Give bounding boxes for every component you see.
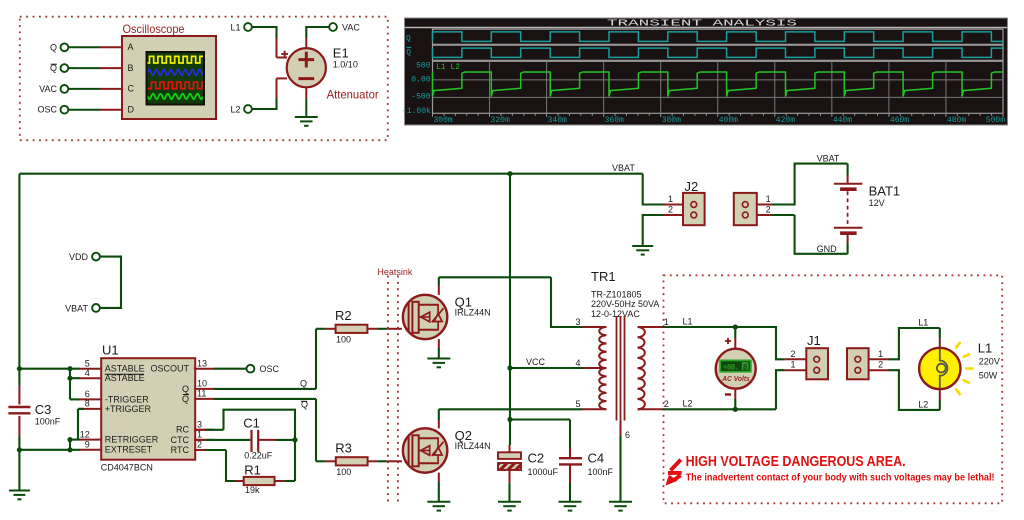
svg-text:RC: RC (176, 425, 189, 435)
svg-text:GND: GND (817, 244, 838, 254)
svg-text:500m: 500m (986, 116, 1005, 125)
svg-text:IRLZ44N: IRLZ44N (455, 307, 491, 317)
svg-text:1: 1 (766, 194, 771, 204)
svg-text:ASTABLE: ASTABLE (105, 364, 145, 374)
svg-text:CD4047BCN: CD4047BCN (101, 463, 153, 473)
svg-text:C1: C1 (243, 416, 260, 431)
svg-text:12: 12 (80, 429, 90, 439)
svg-text:U1: U1 (102, 343, 119, 358)
svg-text:2: 2 (197, 440, 202, 450)
svg-text:R1: R1 (244, 462, 261, 477)
svg-text:6: 6 (625, 430, 630, 440)
svg-text:100nF: 100nF (588, 467, 614, 477)
svg-text:13: 13 (197, 358, 207, 368)
svg-text:VDD: VDD (69, 252, 89, 262)
svg-text:3: 3 (575, 317, 580, 327)
svg-text:VBAT: VBAT (817, 154, 840, 164)
svg-text:10: 10 (197, 379, 207, 389)
svg-text:Oscilloscope: Oscilloscope (123, 22, 185, 36)
svg-text:E1: E1 (333, 46, 349, 61)
svg-text:Q: Q (406, 49, 411, 58)
svg-text:300m: 300m (434, 116, 453, 125)
svg-text:J2: J2 (685, 179, 699, 194)
svg-text:1: 1 (664, 317, 669, 327)
svg-text:5: 5 (85, 358, 90, 368)
svg-text:380m: 380m (662, 116, 681, 125)
svg-text:The inadvertent contact of you: The inadvertent contact of your body wit… (686, 473, 995, 484)
svg-text:L1 L2: L1 L2 (436, 63, 460, 72)
svg-text:L1: L1 (683, 316, 693, 326)
svg-text:1: 1 (878, 349, 883, 359)
svg-text:Q: Q (406, 34, 411, 43)
svg-text:L2: L2 (230, 104, 240, 114)
svg-text:RTC: RTC (171, 445, 190, 455)
svg-text:2: 2 (668, 205, 673, 215)
svg-text:5: 5 (575, 399, 580, 409)
svg-text:RETRIGGER: RETRIGGER (105, 435, 159, 445)
svg-text:C: C (128, 84, 135, 94)
svg-text:8: 8 (85, 399, 90, 409)
svg-text:VAC: VAC (39, 84, 57, 94)
svg-text:C4: C4 (588, 451, 605, 466)
svg-text:CTC: CTC (171, 435, 190, 445)
svg-text:AC Volts: AC Volts (721, 374, 749, 383)
svg-text:2: 2 (790, 349, 795, 359)
svg-text:0.00: 0.00 (411, 76, 430, 85)
svg-text:BAT1: BAT1 (869, 183, 901, 198)
svg-text:L1: L1 (230, 22, 240, 32)
svg-text:19k: 19k (245, 485, 260, 495)
svg-text:50W: 50W (979, 371, 998, 381)
svg-text:+TRIGGER: +TRIGGER (105, 404, 152, 414)
svg-text:320m: 320m (491, 116, 510, 125)
svg-text:VCC: VCC (526, 357, 546, 367)
svg-text:1: 1 (790, 360, 795, 370)
svg-text:9: 9 (85, 440, 90, 450)
svg-text:480m: 480m (947, 116, 966, 125)
svg-text:100: 100 (336, 334, 351, 344)
svg-text:HIGH VOLTAGE DANGEROUS AREA.: HIGH VOLTAGE DANGEROUS AREA. (686, 453, 906, 470)
svg-text:Heatsink: Heatsink (377, 267, 413, 277)
svg-text:Q: Q (182, 394, 189, 404)
svg-text:C3: C3 (35, 402, 52, 417)
svg-text:Q: Q (50, 42, 57, 52)
svg-text:J1: J1 (807, 333, 821, 348)
svg-text:+88.: +88. (723, 363, 739, 372)
svg-text:EXTRESET: EXTRESET (105, 445, 153, 455)
svg-text:2: 2 (664, 399, 669, 409)
svg-text:Attenuator: Attenuator (327, 88, 379, 102)
svg-text:-1.00k: -1.00k (402, 107, 431, 116)
svg-text:D: D (128, 105, 135, 115)
svg-text:L2: L2 (683, 399, 693, 409)
svg-text:TR1: TR1 (591, 269, 616, 284)
svg-text:100nF: 100nF (35, 416, 61, 426)
svg-text:340m: 340m (548, 116, 567, 125)
svg-text:VBAT: VBAT (65, 304, 88, 314)
svg-text:TRANSIENT ANALYSIS: TRANSIENT ANALYSIS (607, 17, 798, 28)
svg-text:OSC: OSC (37, 105, 57, 115)
svg-text:VBAT: VBAT (612, 163, 635, 173)
svg-text:2: 2 (766, 205, 771, 215)
svg-text:L2: L2 (918, 399, 928, 409)
svg-text:-TRIGGER: -TRIGGER (105, 394, 149, 404)
svg-text:Q: Q (300, 378, 307, 388)
svg-text:OSC: OSC (260, 364, 280, 374)
svg-text:IRLZ44N: IRLZ44N (455, 441, 491, 451)
svg-text:-500: -500 (411, 92, 430, 101)
svg-text:R3: R3 (335, 441, 352, 456)
svg-text:C2: C2 (528, 451, 545, 466)
svg-text:4: 4 (575, 358, 580, 368)
svg-text:1000uF: 1000uF (528, 467, 559, 477)
svg-text:400m: 400m (719, 116, 738, 125)
svg-text:100: 100 (336, 467, 351, 477)
svg-text:1: 1 (668, 194, 673, 204)
svg-text:220V-50Hz 50VA: 220V-50Hz 50VA (591, 299, 659, 309)
svg-text:460m: 460m (890, 116, 909, 125)
svg-text:2: 2 (878, 360, 883, 370)
svg-text:0.22uF: 0.22uF (244, 451, 273, 461)
svg-text:6: 6 (85, 389, 90, 399)
svg-text:Q: Q (182, 384, 189, 394)
svg-text:A: A (128, 42, 134, 52)
svg-text:8: 8 (743, 363, 748, 372)
svg-text:1: 1 (197, 430, 202, 440)
svg-text:500: 500 (416, 62, 431, 71)
svg-text:360m: 360m (605, 116, 624, 125)
svg-text:B: B (128, 63, 134, 73)
svg-text:4: 4 (85, 368, 90, 378)
svg-text:3: 3 (197, 420, 202, 430)
svg-text:12V: 12V (869, 198, 885, 208)
svg-text:OSCOUT: OSCOUT (150, 364, 189, 374)
svg-text:L1: L1 (918, 318, 928, 328)
svg-text:L1: L1 (978, 340, 992, 355)
svg-text:11: 11 (197, 389, 206, 399)
svg-text:440m: 440m (833, 116, 852, 125)
svg-text:R2: R2 (335, 308, 352, 323)
svg-text:VAC: VAC (342, 23, 360, 33)
svg-text:220V: 220V (979, 357, 1000, 367)
svg-text:TR-Z101805: TR-Z101805 (591, 289, 642, 299)
svg-text:420m: 420m (776, 116, 795, 125)
svg-text:1.0/10: 1.0/10 (333, 59, 358, 69)
